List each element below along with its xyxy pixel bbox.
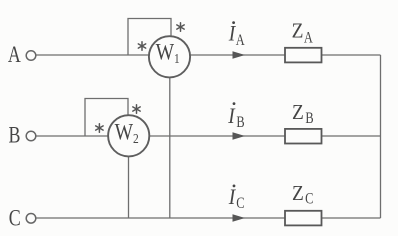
svg-text:Z: Z [292, 182, 304, 205]
svg-text:C: C [9, 207, 21, 232]
svg-text:A: A [236, 32, 246, 50]
svg-text:B: B [305, 110, 313, 128]
svg-text:A: A [8, 43, 21, 68]
svg-text:C: C [236, 195, 244, 213]
svg-text:B: B [236, 114, 244, 132]
svg-text:C: C [305, 190, 313, 208]
svg-text:A: A [304, 29, 314, 47]
svg-text:Z: Z [292, 19, 304, 42]
svg-text:B: B [9, 124, 21, 149]
svg-text:Z: Z [292, 101, 304, 124]
svg-text:I: I [228, 186, 236, 209]
svg-text:I: I [227, 105, 235, 128]
